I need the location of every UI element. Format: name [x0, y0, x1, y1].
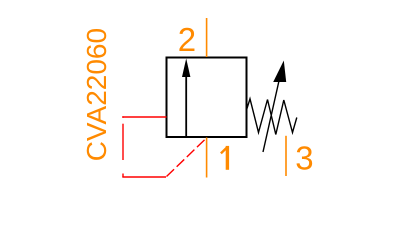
svg-text:CVA22060: CVA22060 — [81, 28, 112, 161]
svg-text:3: 3 — [295, 139, 313, 176]
svg-text:2: 2 — [178, 21, 196, 58]
